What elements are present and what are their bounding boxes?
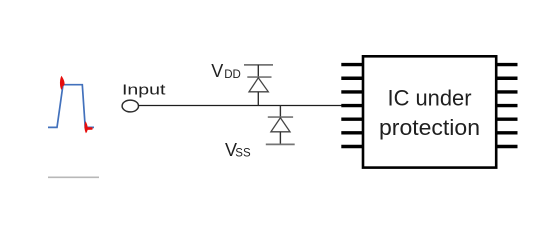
svg-text:IC under: IC under (388, 85, 472, 110)
svg-text:DD: DD (224, 69, 241, 81)
svg-text:protection: protection (379, 115, 480, 140)
svg-text:V: V (211, 61, 223, 81)
svg-text:Input: Input (122, 81, 167, 98)
svg-text:SS: SS (235, 148, 251, 160)
